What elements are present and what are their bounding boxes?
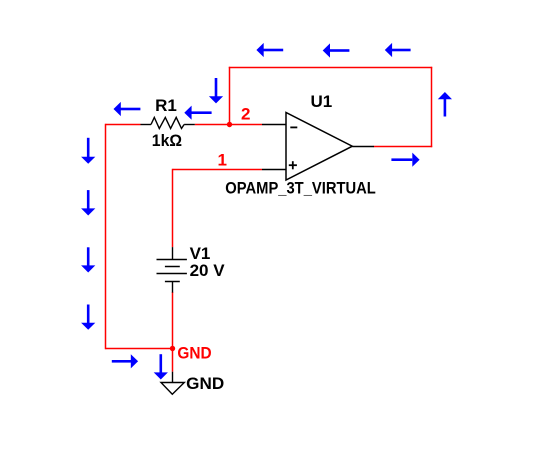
wire feedback left vertical (229, 67, 231, 124)
battery V1 plate long top (157, 259, 187, 261)
svg-text:1: 1 (218, 150, 227, 169)
wire bottom horizontal (106, 348, 173, 350)
op-amp U1 triangle (286, 113, 352, 181)
wire node2 horizontal left of R1 (106, 124, 141, 126)
wire feedback right vertical (431, 67, 433, 147)
svg-text:20 V: 20 V (190, 261, 226, 280)
svg-text:1kΩ: 1kΩ (152, 131, 182, 150)
ground lead (172, 372, 174, 383)
node GND junction dot (170, 346, 175, 351)
current arrow left column 4 pointing down (81, 305, 95, 330)
node 2 junction dot (227, 122, 232, 127)
current arrow left column 1 pointing down (81, 138, 95, 164)
wire output horizontal (374, 146, 433, 148)
ground symbol triangle (161, 383, 184, 395)
op-amp minus sign (290, 126, 297, 128)
current arrow left of R1 pointing left (114, 102, 141, 116)
battery V1 bottom lead (172, 282, 174, 293)
op-amp U1 output lead (352, 146, 374, 148)
wire node2 horizontal right of R1 (195, 124, 262, 126)
current arrow right of R1 pointing left (184, 106, 211, 120)
wire left vertical (105, 124, 107, 349)
current arrow at output pointing right (391, 153, 419, 167)
battery V1 top lead (172, 247, 174, 259)
current arrow left column 2 pointing down (81, 190, 95, 215)
svg-text:OPAMP_3T_VIRTUAL: OPAMP_3T_VIRTUAL (225, 179, 375, 198)
current arrow near ground pointing down (154, 354, 168, 379)
current arrow top-right pointing left (385, 43, 411, 57)
svg-text:U1: U1 (311, 92, 333, 111)
svg-text:R1: R1 (155, 96, 177, 115)
op-amp U1 input lead plus (262, 169, 286, 171)
current arrow above node 2 pointing down (209, 78, 223, 103)
svg-text:2: 2 (241, 104, 250, 123)
wire plus input vertical to battery (172, 169, 174, 247)
battery V1 plate short bottom (165, 281, 180, 283)
current arrow bottom pointing right (112, 354, 138, 368)
svg-text:GND: GND (186, 374, 224, 393)
current arrow top-left pointing left (256, 43, 283, 57)
resistor R1 (141, 117, 195, 128)
current arrow top-middle pointing left (323, 43, 350, 57)
battery V1 plate short upper (165, 266, 180, 268)
wire battery bottom vertical (172, 292, 174, 349)
op-amp plus sign (289, 161, 297, 169)
wire plus input horizontal (173, 169, 263, 171)
current arrow left column 3 pointing down (81, 247, 95, 272)
wire top feedback horizontal (229, 67, 432, 69)
battery V1 plate long lower (157, 273, 187, 275)
svg-text:GND: GND (177, 344, 211, 363)
wire ground stub (172, 349, 174, 372)
current arrow right side pointing up (438, 92, 452, 117)
op-amp U1 input lead minus (262, 124, 286, 126)
